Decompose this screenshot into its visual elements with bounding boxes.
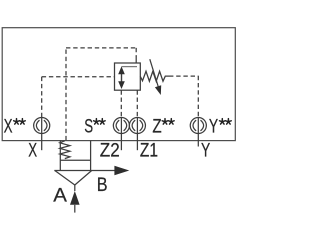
- port Z1 plug circle: [129, 117, 145, 150]
- pilot line valve bottom to Z1: [136, 90, 138, 117]
- pilot line X riser: [41, 77, 43, 118]
- svg-text:Z1: Z1: [140, 139, 158, 161]
- pilot line Y riser: [197, 76, 199, 118]
- port X plug circle: [34, 117, 50, 150]
- dashed pilot lines: [42, 48, 199, 140]
- port Z2 plug circle: [113, 117, 129, 150]
- pilot line top horizontal: [66, 47, 136, 49]
- poppet stem: [74, 185, 76, 191]
- valve housing outline: [2, 28, 235, 141]
- svg-text:Z: Z: [152, 115, 161, 137]
- internal arrowhead bottom: [118, 81, 125, 89]
- svg-text:X: X: [28, 140, 37, 161]
- svg-text:Y: Y: [209, 116, 218, 138]
- cartridge poppet seat / B line: [54, 170, 115, 172]
- cartridge internal seat line: [60, 159, 90, 161]
- main cartridge valve body: [59, 140, 61, 170]
- pilot line down to valve top: [135, 48, 137, 57]
- pilot line spring to Y elbow: [169, 75, 198, 77]
- svg-text:A: A: [53, 185, 67, 206]
- pilot relief valve U1 square: [115, 63, 141, 90]
- pilot line top elbow (left riser to spring chamber): [65, 48, 67, 140]
- internal flow line (grey): [122, 66, 138, 68]
- internal arrowhead top: [118, 66, 125, 74]
- poppet cone: [55, 171, 92, 186]
- port B arrowhead: [114, 166, 129, 175]
- pilot line valve bottom to Z2: [120, 90, 122, 117]
- svg-text:B: B: [97, 174, 108, 196]
- svg-text:Z2: Z2: [100, 140, 120, 161]
- pilot line X horizontal: [42, 76, 115, 78]
- svg-text:Y: Y: [201, 139, 210, 161]
- cartridge spring: [60, 141, 70, 159]
- adjustment arrow across spring: [150, 59, 158, 86]
- svg-text:S: S: [84, 116, 93, 137]
- port A line: [74, 205, 76, 213]
- port A arrowhead: [70, 191, 80, 205]
- port Y plug circle: [190, 117, 206, 146]
- spring of pilot valve: [140, 71, 169, 81]
- svg-text:X: X: [4, 117, 13, 138]
- pilot valve top port stub: [135, 57, 137, 63]
- internal double arrow: [121, 71, 123, 85]
